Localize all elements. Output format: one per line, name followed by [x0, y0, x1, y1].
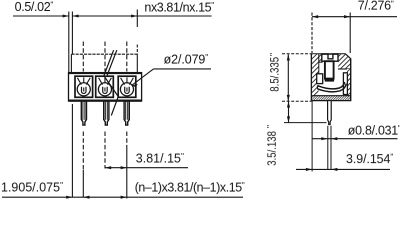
- terminal housing main body (front view): [69, 73, 142, 101]
- screw shank: [325, 61, 334, 81]
- svg-text:3.81/.15": 3.81/.15": [136, 151, 184, 165]
- top-right wall hatch: [338, 54, 350, 69]
- break line (zigzag): [104, 50, 118, 115]
- pin 2 (front view): [104, 101, 109, 125]
- svg-text:ø0.8/.031": ø0.8/.031": [348, 123, 400, 137]
- svg-text:3.5/.138: 3.5/.138: [265, 131, 279, 166]
- left wall hatch: [312, 54, 319, 95]
- hatch boundary lines: [319, 61, 323, 63]
- top wall hatch left of screw: [319, 54, 322, 62]
- pole 3 clamp opening: [118, 76, 136, 97]
- svg-text:ø2/.079": ø2/.079": [164, 52, 209, 66]
- dimension text ø2/.079": [164, 52, 209, 66]
- extension line nx3.81 right (x=137.3): [136, 10, 138, 28]
- dimension text ø0.8/.031": [348, 123, 400, 137]
- dimension text 3.9/.154": [346, 152, 393, 166]
- side body outline: [312, 54, 351, 100]
- dimension 3.81 (pole2-pole3): [105, 166, 188, 169]
- dimension 8.5 vertical: [282, 54, 311, 101]
- extension line 7 right (x=349.3): [349, 13, 351, 54]
- svg-text:nx3.81/nx.15": nx3.81/nx.15": [144, 0, 214, 14]
- svg-text:8.5/.335: 8.5/.335: [268, 57, 282, 92]
- svg-text:(n–1)x3.81/(n–1)x.15": (n–1)x3.81/(n–1)x.15": [135, 180, 245, 194]
- dimension text 3.5/.138" (rotated): [265, 125, 279, 166]
- extension line nx3.81 left (x=72.4): [71, 12, 73, 55]
- clamp cage right frame: [343, 73, 347, 95]
- svg-text:0.5/.02": 0.5/.02": [15, 0, 54, 14]
- svg-text:3.9/.154": 3.9/.154": [346, 152, 393, 166]
- dimension ø0.8: [312, 137, 397, 140]
- clamp cage left pocket: [317, 74, 323, 84]
- body bottom edge restroke: [69, 99, 142, 101]
- dimension text 8.5/.335" (rotated): [268, 53, 282, 92]
- dimension line 7 (y=17.3): [312, 15, 397, 18]
- right wall hatch: [347, 69, 350, 96]
- svg-text:1.905/.075": 1.905/.075": [1, 180, 63, 194]
- terminal housing upper section (front view): [69, 54, 138, 72]
- extension line 7 left (x=312.3): [311, 13, 313, 54]
- dimension text 7/.276": [358, 0, 394, 13]
- dimension text 1.905/.075": [1, 180, 63, 194]
- dimension text 3.81/.15": [136, 151, 184, 165]
- pin 1 (front view): [81, 101, 86, 125]
- svg-text:7/.276": 7/.276": [358, 0, 394, 13]
- dimension line 1.905 / (n-1)x3.81 (y=196.2): [2, 196, 243, 199]
- extension line left body edge (x=68.8): [68, 12, 70, 55]
- pin (side view): [328, 101, 332, 170]
- pole 1 center line (dashed): [82, 42, 84, 198]
- dimension line 0.5 / nx3.81 (y=16.5): [13, 14, 212, 17]
- dimension 3.9: [296, 101, 390, 172]
- pin 3 (front view): [124, 101, 129, 125]
- pole 3 center line (dashed): [126, 42, 128, 199]
- leader ø2 to pole 3 screw: [132, 69, 211, 87]
- svg-text:": ": [268, 53, 278, 56]
- pole 2 clamp opening: [96, 76, 114, 97]
- extension line lower-left long (x=72.4): [71, 104, 73, 197]
- svg-text:": ": [265, 125, 275, 128]
- screw head with slot: [322, 54, 338, 61]
- pole 1 clamp opening: [75, 76, 93, 97]
- dimension text 0.5/.02": [15, 0, 54, 14]
- dimension 3.5 vertical: [284, 101, 327, 122]
- dimension text nx3.81/nx.15": [144, 0, 214, 14]
- bottom wall top line: [312, 95, 350, 97]
- bottom wall hatch: [312, 96, 350, 100]
- pole 2 center line (dashed): [104, 42, 106, 169]
- wire guard curved band: [317, 82, 346, 92]
- dimension text (n-1)x3.81/(n-1)x.15": [135, 180, 245, 194]
